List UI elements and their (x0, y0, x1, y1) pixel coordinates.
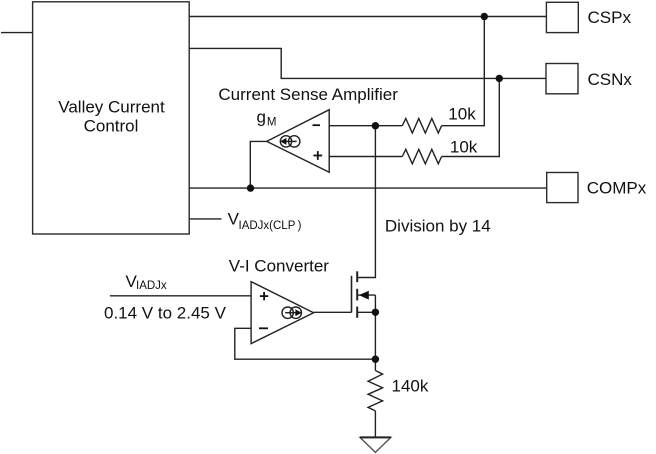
svg-text:CSPx: CSPx (588, 8, 632, 27)
svg-text:CSNx: CSNx (588, 70, 633, 89)
svg-text:Current Sense Amplifier: Current Sense Amplifier (218, 85, 398, 104)
svg-text:IADJx: IADJx (136, 280, 167, 292)
svg-text:0.14 V to 2.45 V: 0.14 V to 2.45 V (104, 304, 227, 323)
svg-text:Valley Current: Valley Current (58, 97, 165, 116)
svg-text:COMPx: COMPx (587, 179, 647, 198)
svg-text:Division by 14: Division by 14 (385, 216, 491, 235)
svg-text:V-I Converter: V-I Converter (229, 257, 329, 276)
svg-text:Control: Control (84, 117, 139, 136)
svg-text:140k: 140k (392, 376, 429, 395)
svg-text:IADJx(CLP ): IADJx(CLP ) (239, 220, 302, 232)
svg-text:g: g (257, 107, 266, 126)
svg-text:10k: 10k (450, 138, 478, 157)
svg-text:M: M (267, 117, 277, 129)
svg-text:10k: 10k (448, 104, 476, 123)
